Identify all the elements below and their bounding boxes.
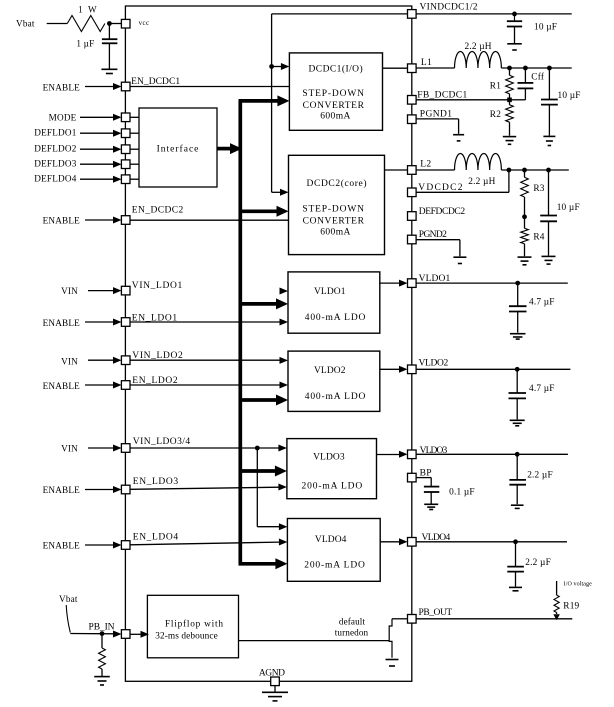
svg-text:ENABLE: ENABLE [43,318,81,328]
svg-text:10 µF: 10 µF [557,203,580,213]
svg-text:VIN: VIN [61,286,78,296]
svg-text:PGND1: PGND1 [420,110,452,120]
svg-text:ENABLE: ENABLE [43,540,81,550]
svg-text:ENABLE: ENABLE [43,83,81,93]
svg-text:VDCDC2: VDCDC2 [418,183,463,193]
svg-text:L1: L1 [421,58,432,68]
svg-text:vcc: vcc [139,20,150,27]
svg-text:DEFLDO1: DEFLDO1 [34,127,76,137]
svg-text:L2: L2 [420,160,431,170]
svg-text:I/O voltage: I/O voltage [564,581,592,587]
svg-text:1 µF: 1 µF [76,39,94,49]
svg-text:R4: R4 [533,233,544,243]
svg-text:turnedon: turnedon [335,628,369,638]
svg-text:EN_DCDC2: EN_DCDC2 [132,206,184,216]
svg-text:MODE: MODE [49,113,77,123]
svg-text:VLDO3: VLDO3 [313,453,345,463]
svg-text:2.2 µH: 2.2 µH [465,42,492,52]
svg-text:Vbat: Vbat [16,19,35,29]
svg-text:AGND: AGND [259,668,285,678]
svg-text:VLDO2: VLDO2 [314,366,346,376]
svg-text:0.1 µF: 0.1 µF [449,488,475,498]
svg-text:32-ms debounce: 32-ms debounce [155,631,218,641]
svg-text:FB_DCDC1: FB_DCDC1 [417,91,467,101]
svg-text:PB_OUT: PB_OUT [419,608,453,618]
svg-text:PB_IN: PB_IN [89,623,115,633]
svg-text:DEFLDO4: DEFLDO4 [34,173,76,183]
svg-text:CONVERTER: CONVERTER [303,216,365,226]
svg-text:4.7 µF: 4.7 µF [529,298,555,308]
svg-text:200-mA LDO: 200-mA LDO [304,561,366,571]
svg-text:default: default [339,616,366,626]
svg-text:EN_LDO3: EN_LDO3 [133,477,179,487]
svg-text:VLDO1: VLDO1 [419,274,451,284]
svg-text:VIN: VIN [61,356,78,366]
svg-text:DEFLDO2: DEFLDO2 [34,143,76,153]
svg-text:Interface: Interface [157,144,200,155]
svg-text:2.2 µH: 2.2 µH [468,177,495,187]
svg-text:ENABLE: ENABLE [43,381,81,391]
svg-text:DEFLDO3: DEFLDO3 [34,158,76,168]
svg-text:STEP-DOWN: STEP-DOWN [302,205,365,215]
svg-text:PGND2: PGND2 [419,230,447,240]
svg-text:R1: R1 [490,82,501,92]
svg-text:EN_LDO4: EN_LDO4 [133,532,179,542]
svg-text:2.2 µF: 2.2 µF [527,470,553,480]
svg-text:DEFDCDC2: DEFDCDC2 [419,207,466,217]
svg-text:VLDO4: VLDO4 [315,535,347,545]
svg-text:400-mA LDO: 400-mA LDO [305,313,367,323]
svg-text:4.7 µF: 4.7 µF [529,384,555,394]
svg-text:200-mA LDO: 200-mA LDO [302,482,364,492]
svg-text:DCDC1(I/O): DCDC1(I/O) [308,64,363,75]
svg-text:1 W: 1 W [78,5,97,15]
svg-text:VIN: VIN [61,444,78,454]
svg-text:VLDO2: VLDO2 [419,358,449,368]
svg-text:R3: R3 [533,184,544,194]
svg-text:600mA: 600mA [320,112,351,122]
svg-text:400-mA LDO: 400-mA LDO [305,392,367,402]
svg-text:VLDO1: VLDO1 [314,287,346,297]
svg-text:Flipflop with: Flipflop with [165,618,223,629]
svg-text:Cff: Cff [531,72,545,83]
svg-text:10 µF: 10 µF [534,23,557,33]
svg-text:VINDCDC1/2: VINDCDC1/2 [420,3,478,13]
svg-text:10 µF: 10 µF [558,91,581,101]
svg-text:R2: R2 [490,110,501,120]
svg-text:ENABLE: ENABLE [43,485,81,495]
svg-text:R19: R19 [563,602,579,612]
svg-text:VIN_LDO3/4: VIN_LDO3/4 [133,437,191,447]
svg-text:ENABLE: ENABLE [43,216,81,226]
svg-text:2.2 µF: 2.2 µF [525,558,551,568]
svg-text:600mA: 600mA [320,227,351,237]
svg-text:Vbat: Vbat [59,594,78,604]
svg-text:STEP-DOWN: STEP-DOWN [302,89,365,99]
svg-text:VIN_LDO1: VIN_LDO1 [132,281,183,291]
svg-text:EN_DCDC1: EN_DCDC1 [131,77,180,87]
svg-text:DCDC2(core): DCDC2(core) [307,178,367,189]
svg-text:CONVERTER: CONVERTER [303,101,365,111]
